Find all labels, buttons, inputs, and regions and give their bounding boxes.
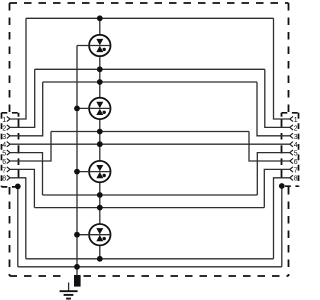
svg-text:5: 5 <box>2 151 6 158</box>
device enclosure dashed border right lower <box>288 187 290 276</box>
svg-text:6: 6 <box>294 159 298 166</box>
svg-text:1: 1 <box>2 117 6 124</box>
svg-text:7: 7 <box>2 167 6 174</box>
junction node line4/chain <box>97 141 103 147</box>
wire shield right drop <box>281 186 283 267</box>
svg-text:2: 2 <box>2 125 6 132</box>
right connector block dashed outline <box>282 113 299 187</box>
left terminal 8 pin arrow <box>7 175 10 180</box>
gas discharge tube GDT1 <box>77 35 111 56</box>
svg-text:4: 4 <box>294 142 298 149</box>
wire line6 right <box>249 132 290 162</box>
wire line2 left <box>10 69 35 127</box>
junction node right shield contact <box>279 183 285 189</box>
ground symbol bar2 <box>64 294 74 296</box>
wire line7 run <box>34 207 264 209</box>
svg-text:3: 3 <box>294 134 298 141</box>
wire line4 straight run <box>10 143 290 145</box>
junction node GDT2 center/earth bus <box>74 106 80 112</box>
svg-text:3: 3 <box>2 134 6 141</box>
wire shield left drop <box>17 186 19 266</box>
arrester chain vertical segment 3-4 <box>99 183 101 224</box>
device enclosure dashed border right upper <box>288 3 290 113</box>
ground symbol stem <box>68 283 70 292</box>
svg-text:6: 6 <box>2 159 6 166</box>
left terminal 5 pin arrow <box>7 150 10 155</box>
gas discharge tube GDT4 <box>77 224 111 245</box>
wire line5 right <box>257 153 290 195</box>
left terminal 2 pin arrow <box>7 125 10 130</box>
right terminal 7 pin arrow <box>290 167 293 172</box>
ground symbol bar3 <box>66 298 71 300</box>
gas discharge tube GDT2 <box>77 98 111 119</box>
wire line8 left <box>10 178 26 259</box>
wire line1 right drop <box>274 18 290 119</box>
arrester chain vertical segment 2-3 <box>99 120 101 161</box>
device enclosure dashed border top <box>10 2 289 4</box>
wire line6 run <box>51 131 249 133</box>
arrester chain vertical segment top <box>99 18 101 34</box>
svg-text:4: 4 <box>2 142 6 149</box>
left terminal 3 pin arrow <box>7 133 10 138</box>
junction node line7/chain <box>97 205 103 211</box>
left terminal 6 pin arrow <box>7 158 10 163</box>
device enclosure dashed border left lower <box>9 187 11 276</box>
wire line5 run <box>43 194 258 196</box>
junction node line3/chain <box>97 79 103 85</box>
junction node line1/chain top <box>97 15 103 21</box>
svg-text:5: 5 <box>294 151 298 158</box>
left terminal 4 pin arrow <box>7 142 10 147</box>
junction node line8/chain bottom <box>97 256 103 262</box>
wire line6 left <box>10 132 51 162</box>
wire line3 run <box>43 81 257 83</box>
wire line2 run <box>35 68 265 70</box>
gas discharge tube GDT3 <box>77 161 111 182</box>
right terminal 8 pin arrow <box>290 175 293 180</box>
left terminal 7 pin arrow <box>7 167 10 172</box>
junction node left shield contact <box>15 184 21 190</box>
svg-text:7: 7 <box>294 167 298 174</box>
junction node line5/chain <box>97 192 103 198</box>
junction node earth bus/shield bus <box>74 264 80 270</box>
earth electrode bus vertical <box>76 46 78 276</box>
svg-text:8: 8 <box>2 176 6 183</box>
right terminal 6 pin arrow <box>290 158 293 163</box>
wire shield bottom bus <box>18 266 282 268</box>
right terminal 5 pin arrow <box>290 150 293 155</box>
device enclosure dashed border bottom <box>10 275 64 277</box>
wire line3 left <box>10 82 43 136</box>
left terminal 1 pin arrow <box>7 116 10 121</box>
svg-text:8: 8 <box>294 176 298 183</box>
wire line8 right <box>274 178 290 259</box>
earth feed-through terminal <box>74 275 81 287</box>
wire line8 bottom bus <box>26 258 274 260</box>
junction node GDT4 center/earth bus <box>74 232 80 238</box>
wire line5 left <box>10 153 43 195</box>
svg-text:1: 1 <box>294 117 298 124</box>
svg-text:2: 2 <box>294 125 298 132</box>
wire line1 top run <box>26 17 274 19</box>
right terminal 1 pin arrow <box>290 116 293 121</box>
right terminal 4 pin arrow <box>290 142 293 147</box>
wire line2 right <box>265 69 290 127</box>
wire line7 left <box>10 169 35 207</box>
ground symbol bar1 <box>60 290 78 292</box>
left connector block dashed outline <box>2 113 19 187</box>
wire line3 right <box>257 82 290 136</box>
right terminal 2 pin arrow <box>290 125 293 130</box>
wire line1 left stub <box>10 18 26 119</box>
arrester chain vertical segment bottom <box>99 246 101 259</box>
device enclosure dashed border left upper <box>9 3 11 113</box>
arrester chain vertical segment 1-2 <box>99 57 101 97</box>
junction node GDT3 center/earth bus <box>74 169 80 175</box>
right terminal 3 pin arrow <box>290 133 293 138</box>
junction node line2/chain <box>97 66 103 72</box>
junction node line6/chain <box>97 129 103 135</box>
wire line7 right <box>264 169 290 207</box>
